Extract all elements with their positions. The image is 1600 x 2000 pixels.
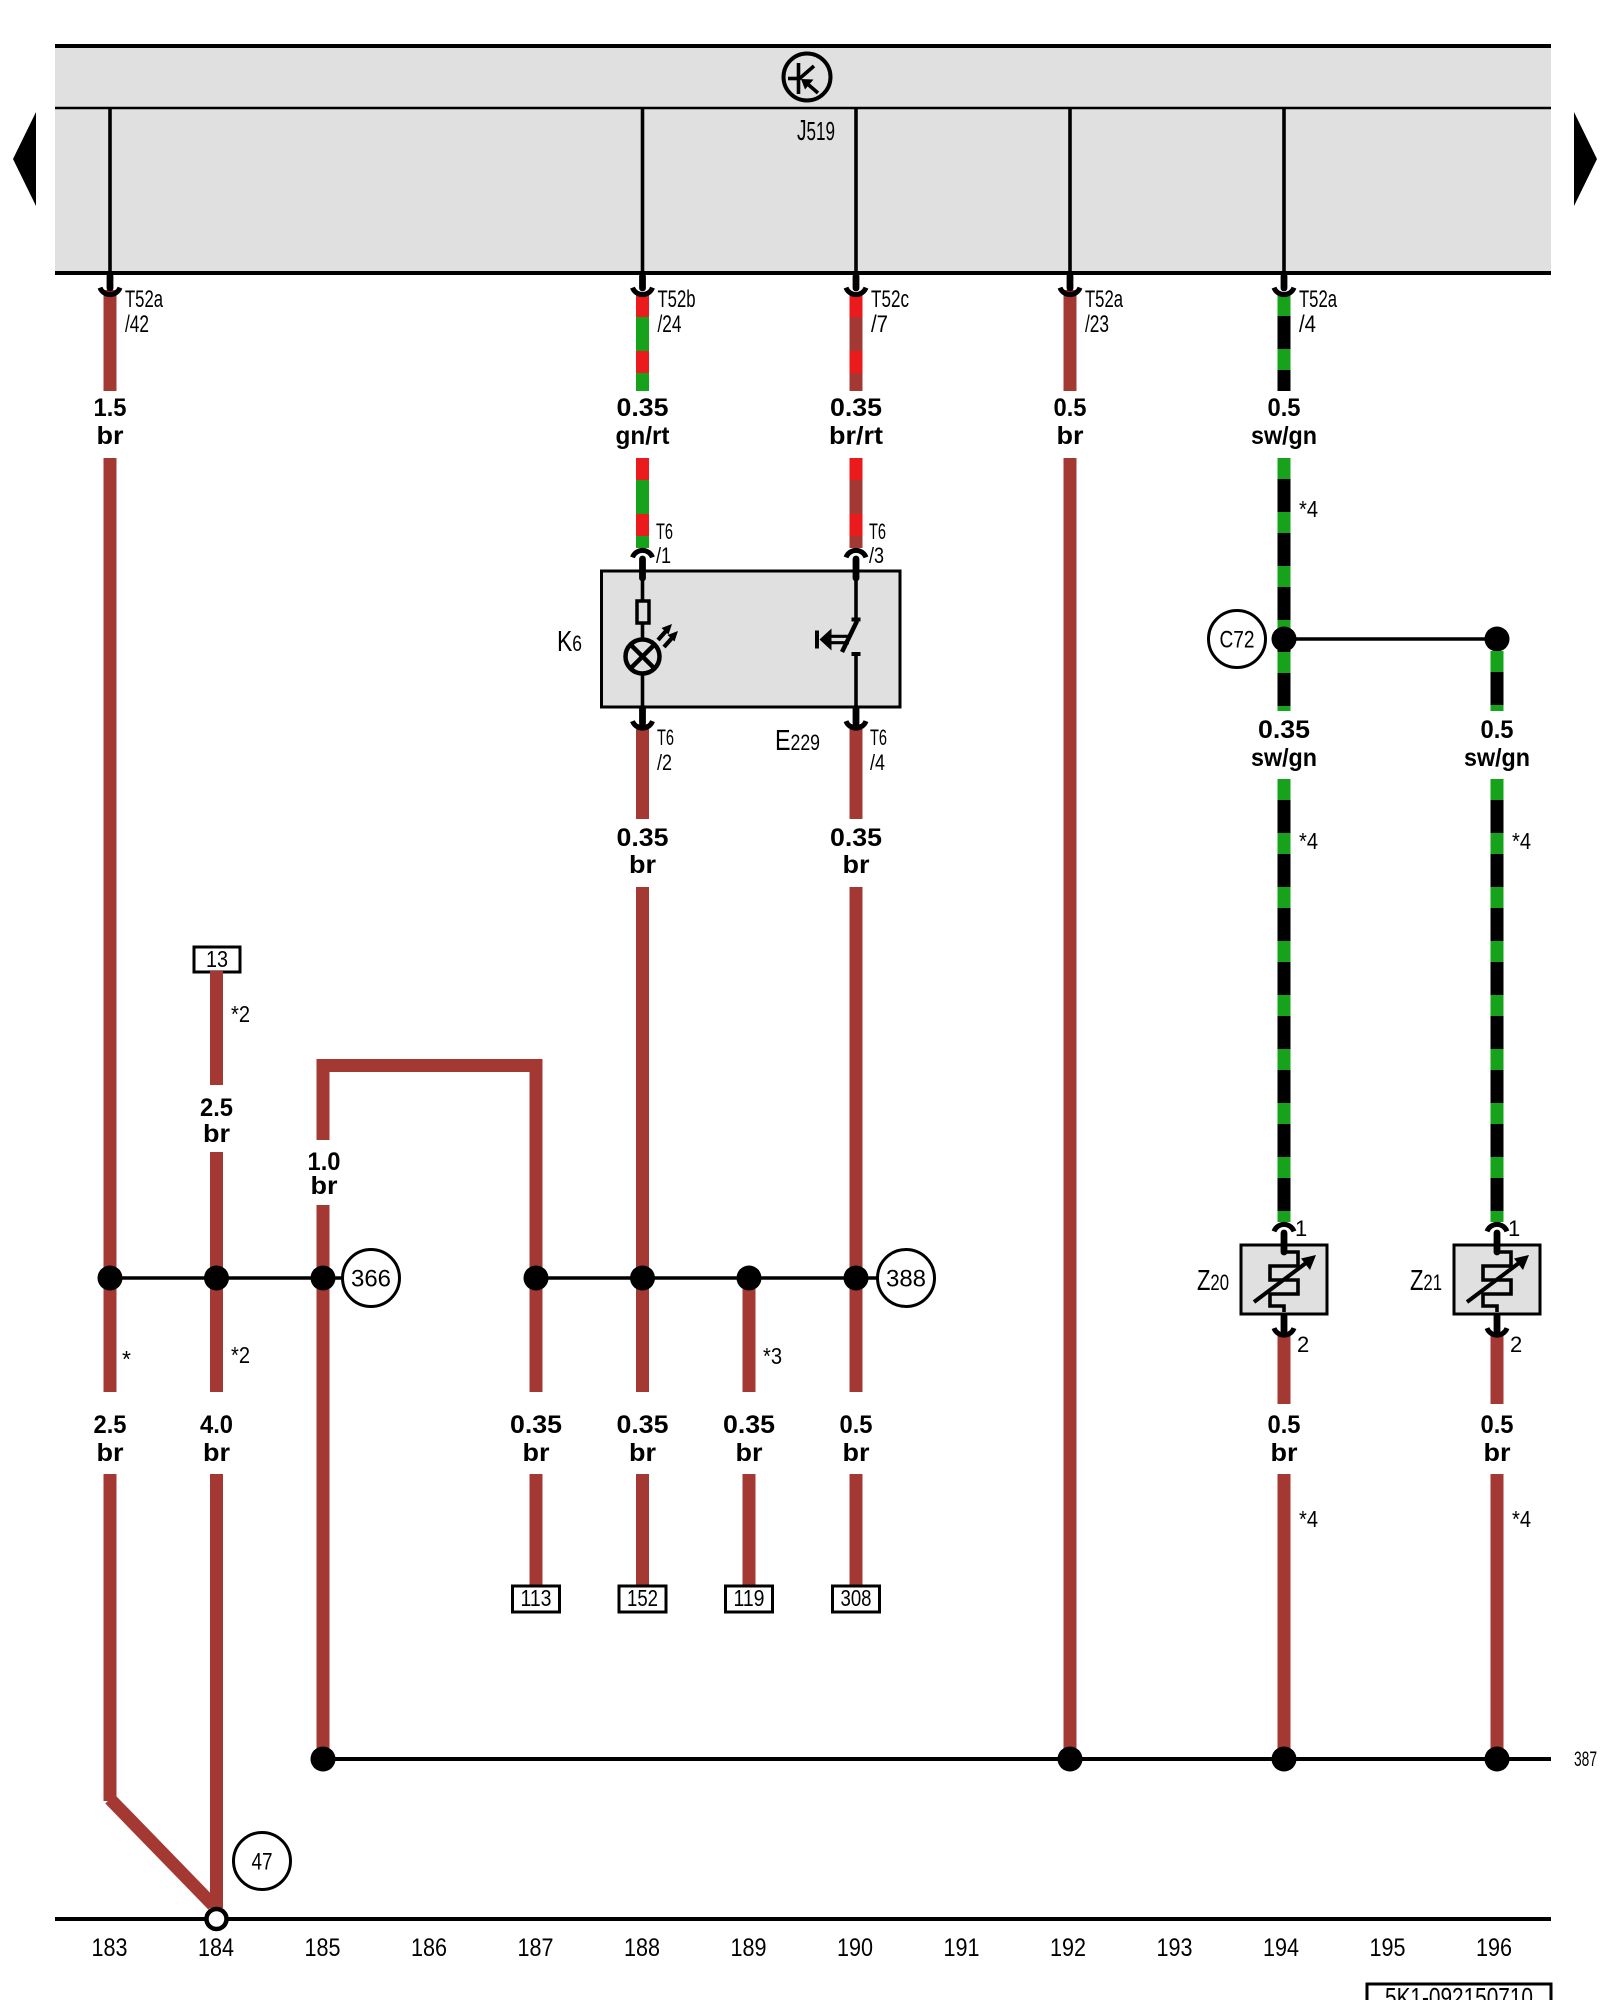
svg-text:193: 193 (1157, 1934, 1193, 1962)
svg-text:br: br (629, 1439, 656, 1467)
svg-text:T6: T6 (869, 519, 886, 544)
junction dot 185/366 (311, 1266, 336, 1291)
K6 warning lamp symbol (626, 640, 660, 674)
svg-text:T6: T6 (870, 725, 887, 750)
E229 internal lead upper (854, 561, 858, 618)
E229 internal lead lower (854, 654, 858, 717)
svg-text:sw/gn: sw/gn (1251, 744, 1317, 772)
connector T52b/24 at J519 (633, 276, 696, 338)
wire 0.5 sw/gn stub below C72 (1491, 651, 1504, 711)
svg-text:*4: *4 (1299, 828, 1318, 854)
K6 internal lead middle (641, 623, 645, 639)
wire 1.0 br to node 366 (317, 1205, 330, 1392)
svg-text:T6: T6 (656, 519, 673, 544)
svg-text:47: 47 (252, 1849, 273, 1876)
svg-text:T52c: T52c (871, 286, 909, 313)
svg-text:366: 366 (351, 1266, 391, 1293)
K6 internal lead lower (641, 672, 645, 717)
svg-text:/23: /23 (1085, 311, 1109, 338)
svg-text:*: * (122, 1346, 131, 1372)
E229 switch blade (842, 621, 857, 652)
connector T52c/7 at J519 (846, 276, 909, 338)
bottom rail line (55, 1917, 1551, 1921)
svg-text:194: 194 (1263, 1934, 1299, 1962)
node circle 366 (343, 1250, 400, 1307)
svg-text:188: 188 (624, 1934, 660, 1962)
bar inner separator line (55, 107, 1551, 110)
wire 0.35 br/rt upper segment (terminal 190) (850, 295, 863, 391)
svg-text:Z20: Z20 (1197, 1265, 1229, 1297)
node 388 horizontal link (536, 1276, 877, 1280)
svg-text:0.35: 0.35 (830, 394, 882, 422)
svg-text:J519: J519 (797, 115, 835, 147)
svg-text:1: 1 (1295, 1216, 1307, 1241)
svg-text:br: br (1057, 422, 1084, 450)
svg-text:br: br (311, 1172, 338, 1200)
svg-text:1.5: 1.5 (94, 394, 127, 422)
svg-text:1: 1 (1508, 1216, 1520, 1241)
wire br segment to ground bus at x1284 (1278, 1474, 1291, 1759)
svg-text:*2: *2 (231, 1342, 250, 1368)
connector T6/2 at K6 (633, 708, 675, 775)
svg-text:Z21: Z21 (1410, 1265, 1442, 1297)
wire 1.5 br upper segment (terminal 183) (104, 290, 117, 391)
wire 0.35 sw/gn long segment to Z20 (1278, 779, 1291, 1222)
lead wire inside J519 to T52a/4 (1282, 109, 1286, 273)
svg-text:0.5: 0.5 (1481, 1411, 1514, 1439)
wire 4.0 br lower segment to terminal 184 (210, 1474, 223, 1908)
wire 0.35 br drop (column 189) (743, 1278, 756, 1392)
E229 push actuator arrow (815, 629, 849, 651)
svg-text:5K1-092150710: 5K1-092150710 (1385, 1982, 1533, 2000)
direction arrow right (1574, 112, 1597, 206)
control module J519 gray bar (55, 46, 1551, 272)
junction dot 190/388 (844, 1266, 869, 1291)
wire br segment to node 388 (column 188) (636, 887, 649, 1392)
wire 0.35 gn/rt lower segment (636, 458, 649, 548)
terminal ring at 184 (207, 1909, 227, 1929)
wire 0.35 br below E229 (850, 724, 863, 819)
svg-text:/7: /7 (871, 311, 888, 338)
svg-text:/24: /24 (658, 311, 682, 338)
svg-text:K6: K6 (557, 626, 582, 658)
svg-text:T52a: T52a (1085, 286, 1123, 313)
wire 0.35 br/rt lower segment (850, 458, 863, 548)
svg-text:*3: *3 (763, 1343, 782, 1369)
node circle 388 (878, 1250, 935, 1307)
svg-text:T52a: T52a (1299, 286, 1337, 313)
junction dot C72 right (1485, 627, 1510, 652)
svg-text:*4: *4 (1299, 496, 1318, 522)
svg-text:152: 152 (627, 1585, 658, 1611)
terminal box 119 (726, 1585, 773, 1612)
svg-text:113: 113 (521, 1585, 552, 1611)
wire 1.0 br left drop (317, 1065, 330, 1140)
svg-text:185: 185 (305, 1934, 341, 1962)
svg-text:0.35: 0.35 (510, 1411, 562, 1439)
wire 1.0 br horizontal jog (317, 1059, 543, 1072)
svg-text:br: br (843, 851, 870, 879)
svg-text:gn/rt: gn/rt (616, 422, 671, 450)
connector pin 2 at Z20 (1274, 1316, 1309, 1357)
K6 internal lead upper (641, 561, 645, 601)
direction arrow left (13, 112, 36, 206)
connector T52a/4 at J519 (1274, 276, 1337, 338)
svg-text:0.5: 0.5 (1054, 394, 1087, 422)
junction dot bus/185 (311, 1747, 336, 1772)
heated washer jet Z21 (1454, 1245, 1540, 1314)
svg-text:/4: /4 (1299, 311, 1316, 338)
svg-text:387: 387 (1574, 1748, 1597, 1771)
svg-text:/4: /4 (870, 750, 885, 775)
svg-text:0.35: 0.35 (617, 394, 669, 422)
wire 0.5 br upper segment (terminal 192) (1064, 290, 1077, 391)
junction dot 188/388 (630, 1266, 655, 1291)
wire br segment to ground bus at x1497 (1491, 1474, 1504, 1759)
component box K6 / E229 (602, 571, 901, 707)
node circle 47 (234, 1833, 291, 1890)
junction dot C72 left (1272, 627, 1297, 652)
terminal box 13 (194, 946, 240, 972)
connection C72 horizontal link (1284, 637, 1497, 641)
svg-text:br: br (523, 1439, 550, 1467)
svg-text:*4: *4 (1299, 1506, 1318, 1532)
svg-text:0.35: 0.35 (723, 1411, 775, 1439)
svg-text:183: 183 (92, 1934, 128, 1962)
wire br from node 366 to ground bus 387 (317, 1392, 330, 1759)
wire 0.5 sw/gn long segment to Z21 (1491, 779, 1504, 1222)
svg-text:sw/gn: sw/gn (1251, 422, 1317, 450)
wire 0.5 br long segment to ground bus (1064, 458, 1077, 1759)
svg-text:0.35: 0.35 (1258, 716, 1310, 744)
svg-text:0.35: 0.35 (617, 824, 669, 852)
svg-text:br: br (1271, 1439, 1298, 1467)
svg-text:2: 2 (1297, 1332, 1309, 1357)
svg-text:/2: /2 (657, 750, 672, 775)
connector T6/3 at E229 (846, 519, 886, 578)
junction dot 184/366 (204, 1266, 229, 1291)
svg-text:*2: *2 (231, 1001, 250, 1027)
svg-text:0.35: 0.35 (830, 824, 882, 852)
svg-text:/3: /3 (869, 543, 884, 568)
svg-text:4.0: 4.0 (200, 1411, 233, 1439)
lead wire inside J519 to T52a/23 (1068, 109, 1072, 273)
svg-text:C72: C72 (1220, 627, 1255, 654)
svg-text:E229: E229 (775, 725, 820, 757)
svg-text:*4: *4 (1512, 828, 1531, 854)
svg-text:2.5: 2.5 (200, 1094, 233, 1122)
heated washer jet Z20 (1241, 1245, 1327, 1314)
footer part number box (1367, 1982, 1551, 2000)
K6 light emission arrows (658, 624, 678, 647)
svg-text:br: br (843, 1439, 870, 1467)
svg-text:T6: T6 (657, 725, 674, 750)
connector T52a/42 at J519 (100, 276, 163, 338)
control module symbol (circle with arrow) (784, 54, 831, 101)
wire sw/gn segment above node C72 (1278, 458, 1291, 639)
wire 0.5 br below Z at x1497 (1491, 1332, 1504, 1404)
svg-text:119: 119 (734, 1585, 765, 1611)
svg-text:sw/gn: sw/gn (1464, 744, 1530, 772)
junction dot 187/388 (524, 1266, 549, 1291)
svg-text:br: br (203, 1120, 230, 1148)
svg-text:196: 196 (1476, 1934, 1512, 1962)
wire br segment to terminal 113 (530, 1474, 543, 1586)
wire br segment to terminal 119 (743, 1474, 756, 1586)
svg-text:187: 187 (518, 1934, 554, 1962)
svg-text:T52a: T52a (125, 286, 163, 313)
connector T52a/23 at J519 (1060, 276, 1123, 338)
bar top border line (55, 44, 1551, 48)
svg-text:388: 388 (886, 1266, 926, 1293)
svg-text:br: br (97, 422, 124, 450)
svg-text:0.35: 0.35 (617, 1411, 669, 1439)
junction dot bus/196 (1485, 1747, 1510, 1772)
svg-text:308: 308 (841, 1585, 872, 1611)
terminal box 152 (619, 1585, 666, 1612)
node circle C72 (1209, 611, 1266, 668)
connector T6/4 at E229 (846, 708, 887, 775)
wire 0.5 sw/gn upper segment (terminal 194) (1278, 295, 1291, 391)
svg-text:192: 192 (1050, 1934, 1086, 1962)
wire br middle segment (column 184) (210, 1152, 223, 1392)
svg-text:T52b: T52b (658, 286, 696, 313)
wire br segment to terminal 308 (850, 1474, 863, 1586)
junction dot 183/366 (98, 1266, 123, 1291)
bar bottom border line (55, 271, 1551, 275)
wire br long segment to node 366 (104, 458, 117, 1392)
K6 series resistor rectangle (637, 601, 649, 623)
svg-text:184: 184 (198, 1934, 234, 1962)
svg-text:191: 191 (944, 1934, 980, 1962)
grid coordinate numbers 183-196 (92, 1934, 1513, 1962)
wire br segment to terminal 152 (636, 1474, 649, 1586)
svg-text:0.5: 0.5 (1268, 1411, 1301, 1439)
terminal box 308 (833, 1585, 880, 1612)
svg-text:br: br (736, 1439, 763, 1467)
svg-text:2: 2 (1510, 1332, 1522, 1357)
wire 2.5 br lower segment (104, 1474, 117, 1801)
svg-text:*4: *4 (1512, 1506, 1531, 1532)
svg-text:0.5: 0.5 (1268, 394, 1301, 422)
svg-text:189: 189 (731, 1934, 767, 1962)
wire 0.35 br right drop (column 187) (530, 1065, 543, 1392)
svg-text:br: br (203, 1439, 230, 1467)
svg-text:/42: /42 (125, 311, 149, 338)
wire 2.5 br diagonal segment to terminal 184 (110, 1799, 213, 1905)
svg-text:br: br (97, 1439, 124, 1467)
svg-text:2.5: 2.5 (94, 1411, 127, 1439)
junction dot 189/388 (737, 1266, 762, 1291)
wire 0.35 br below K6 (636, 724, 649, 819)
wire sw/gn segment below node C72 (1278, 639, 1291, 711)
svg-text:br: br (629, 851, 656, 879)
E229 switch lower contact (852, 652, 861, 656)
svg-text:br: br (1484, 1439, 1511, 1467)
node 366 horizontal link (110, 1276, 343, 1280)
terminal box 113 (513, 1585, 560, 1612)
svg-text:br/rt: br/rt (829, 422, 884, 450)
junction dot bus/192 (1058, 1747, 1083, 1772)
E229 switch upper contact (852, 618, 861, 622)
ground bus 387 line (323, 1757, 1551, 1761)
lead wire inside J519 to T52a/42 (108, 109, 112, 273)
wire 0.35 gn/rt upper segment (terminal 188) (636, 295, 649, 391)
connector pin 2 at Z21 (1487, 1316, 1522, 1357)
svg-text:0.5: 0.5 (1481, 716, 1514, 744)
wire 2.5 br from terminal 13 (210, 971, 223, 1085)
lead wire inside J519 to T52c/7 (854, 109, 858, 273)
connector pin 1 at Z20 (1274, 1216, 1307, 1252)
svg-text:186: 186 (411, 1934, 447, 1962)
junction dot bus/194 (1272, 1747, 1297, 1772)
wire br segment to node 388 (column 190) (850, 887, 863, 1392)
connector T6/1 at K6 (633, 519, 674, 578)
svg-text:13: 13 (206, 946, 228, 972)
wire 0.5 br below Z at x1284 (1278, 1332, 1291, 1404)
svg-text:190: 190 (837, 1934, 873, 1962)
svg-text:0.5: 0.5 (840, 1411, 873, 1439)
connector pin 1 at Z21 (1487, 1216, 1520, 1252)
svg-text:/1: /1 (656, 543, 671, 568)
lead wire inside J519 to T52b/24 (641, 109, 645, 273)
svg-text:195: 195 (1370, 1934, 1406, 1962)
